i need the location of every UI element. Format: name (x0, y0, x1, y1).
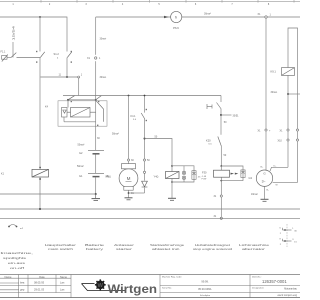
Wirtgen logo ribbon (82, 284, 127, 291)
wire bus 30 right segment (96, 16, 171, 18)
section description column 2 (45, 243, 76, 251)
section description column 4 (114, 243, 134, 251)
svg-text:gep: gep (20, 289, 25, 292)
border bottom line (0, 297, 300, 299)
wire start switch to node (220, 109, 222, 115)
svg-text:G2: G2 (79, 151, 83, 155)
svg-text:K20: K20 (206, 138, 211, 142)
node junction Y4 bottom (171, 181, 173, 183)
wire x67 below switch (66, 58, 68, 78)
solenoid valve coil Y4 (166, 166, 180, 179)
contact K4.1 in starter line (144, 96, 146, 139)
svg-text:Ident-No.:: Ident-No.: (252, 276, 262, 279)
wire hairpin top right (288, 28, 298, 129)
connector 31 pin upper (220, 195, 222, 197)
ground symbol Y4 (168, 198, 176, 200)
svg-text:G3: G3 (249, 176, 253, 180)
svg-text:50ma²: 50ma² (78, 143, 85, 146)
connector pin 1 on y77 (78, 76, 80, 78)
svg-text:F1.1: F1.1 (1, 51, 6, 54)
terminal marks K1 (39, 167, 41, 180)
terminal 30 starter (127, 159, 129, 161)
svg-text:battery: battery (86, 247, 104, 251)
section description column 6 (193, 243, 233, 251)
connector X1 at bus end (265, 16, 267, 18)
connector on x297 y130 (296, 129, 298, 131)
alternator G3 (256, 170, 272, 186)
starter brush box (124, 187, 133, 191)
svg-text:stop engine solenoid: stop engine solenoid (193, 247, 233, 251)
starter solenoid box (128, 161, 130, 164)
gauge P6.6 (171, 11, 182, 22)
svg-text:h: h (175, 15, 177, 20)
section description column 1 (1, 251, 34, 270)
rail 31 partial y194 (0, 193, 96, 195)
connector 31 pin lower on rail (220, 217, 222, 219)
svg-text:30ma¹: 30ma¹ (271, 91, 278, 94)
svg-text:08.05.93: 08.05.93 (34, 280, 45, 284)
svg-text:Wirtgen: Wirtgen (108, 283, 158, 296)
diode in relay box (62, 108, 68, 118)
svg-text:W: W (98, 283, 104, 289)
svg-text:30ma²: 30ma² (204, 12, 211, 15)
svg-text:abtastet ind.: abtastet ind. (152, 247, 180, 251)
svg-text:G1: G1 (79, 174, 83, 178)
node junction bus x40 (39, 16, 41, 18)
svg-text:bea: bea (20, 280, 25, 284)
svg-text:Motoranbau: Motoranbau (284, 287, 297, 290)
ground symbol starter (125, 198, 133, 200)
switch S1 pole c blade (67, 52, 72, 58)
svg-text:Schaltplan: Schaltplan (200, 294, 211, 297)
fuse F1.1 (2, 55, 8, 62)
svg-text:29.01.03: 29.01.03 (34, 288, 45, 292)
svg-text:Name: Name (5, 275, 12, 279)
svg-text:POW: POW (202, 178, 207, 180)
svg-text:50ma²: 50ma² (112, 133, 119, 136)
wire D+ to alternator (270, 167, 288, 171)
svg-text:Y4(): Y4() (154, 174, 159, 178)
wire rail corner to start switch (220, 96, 222, 103)
Wirtgen logo gear (95, 279, 106, 290)
relay contact K9.1 (282, 68, 295, 76)
svg-text:30/51: 30/51 (233, 115, 240, 118)
column ticks top (41, 0, 294, 3)
wire starter feed x128.5 (128, 96, 130, 159)
svg-text:K9.1: K9.1 (271, 70, 277, 74)
wire F30 suppressor loop (221, 166, 243, 181)
svg-text:126357-0001: 126357-0001 (262, 279, 287, 284)
svg-text:Serial No.:: Serial No.: (162, 287, 173, 290)
svg-text:50ma³: 50ma³ (77, 165, 84, 168)
relay box K4.1 outline (58, 101, 107, 126)
border top line (0, 0, 300, 2)
ground symbol battery (92, 194, 101, 201)
svg-text:main switch: main switch (48, 247, 74, 251)
ground symbol alternator (261, 199, 269, 201)
jumper symbol bottom left (9, 225, 17, 227)
wire K20 to F30 (220, 146, 222, 166)
battery G2 (88, 151, 104, 154)
svg-text:M: M (127, 176, 131, 181)
terminal circle diode top (143, 171, 145, 173)
connector X1 pin on x95.7 (95, 57, 97, 59)
rail 30a y95.5 (63, 95, 221, 97)
svg-text:B-: B- (267, 189, 269, 191)
svg-text:16ma²: 16ma² (251, 193, 258, 196)
relay coil K4.1 (67, 100, 90, 117)
node junction F30 top (220, 165, 222, 167)
wire F30 down (220, 177, 222, 217)
wire bus 30 left segment (0, 17, 67, 52)
wire starter to ground (128, 190, 130, 197)
wire x40 vertical main (39, 17, 41, 209)
suppressor diode F30 (241, 170, 245, 178)
relay contact inside box (90, 100, 104, 122)
wire x13 drop (12, 42, 14, 58)
diode V1 (142, 181, 148, 187)
terminal marks switch S1 (36, 51, 72, 63)
svg-text:S1.2: S1.2 (54, 52, 60, 56)
node junction battery ground (95, 193, 97, 195)
svg-text:lmaschine,: lmaschine, (1, 251, 34, 255)
node junction x288 y94 (288, 93, 300, 95)
wire x78 drop (78, 78, 80, 96)
connector X10 on x288 (287, 139, 289, 141)
terminal mark box exit (97, 125, 98, 126)
section description column 7 (239, 243, 270, 251)
connector pin row 2 (283, 239, 292, 241)
wire y57 run (7, 57, 40, 59)
start switch cluster (207, 103, 221, 110)
wire x288 below K9.1 (270, 75, 300, 171)
wire x266 down to alternator (265, 18, 267, 170)
svg-text:Lan: Lan (60, 288, 65, 292)
connector on x297 y140 (296, 139, 298, 141)
wire node link y99.8 (68, 99, 96, 101)
node junction Y4 top (171, 165, 173, 167)
wire box bottom run (64, 100, 96, 150)
wire Y4 suppressor loop (172, 166, 194, 182)
svg-text:starter: starter (116, 247, 132, 251)
suppressor diode Y4 (192, 171, 196, 180)
svg-text:Designation:: Designation: (252, 286, 265, 289)
svg-text:alternator: alternator (242, 247, 265, 251)
terminal 50 (143, 159, 145, 161)
node junction x40 rail (39, 208, 41, 210)
wire y138.5 to Y4 column (145, 139, 173, 167)
battery G1 (88, 174, 104, 177)
svg-text:15/54: 15/54 (12, 25, 16, 40)
svg-text:F30: F30 (202, 170, 207, 174)
wire alternator ground (264, 186, 266, 199)
contact blade left K4 (68, 96, 75, 100)
connector block detail dashed line (286, 224, 288, 247)
node junction 30/51 (220, 114, 222, 116)
wire x297 down to alternator W (273, 131, 298, 182)
svg-text:05.30.0460-: 05.30.0460- (198, 287, 212, 291)
node junction x95.7 (95, 99, 97, 101)
connector X1 on x288 (287, 129, 289, 131)
contact blade right K4 (96, 96, 102, 100)
node junction F30 bottom (220, 180, 222, 182)
connector X1 on x266 (265, 129, 267, 131)
wire x95.7 vertical from bus (95, 17, 97, 100)
node junction y138.5 (144, 138, 146, 140)
svg-text:ein-aus: ein-aus (8, 261, 26, 265)
wire battery to ground rail (95, 177, 97, 194)
title table texts (5, 275, 68, 292)
wire diode link (129, 139, 145, 194)
wire between batteries (95, 155, 97, 174)
rail 31a y218.3 (0, 217, 300, 219)
relay coil K1 (32, 169, 49, 177)
terminal marks on node link (71, 101, 100, 102)
switch S1 pole a blade (11, 53, 16, 58)
svg-text:30ma¹: 30ma¹ (100, 38, 107, 41)
rail 31 y209 (0, 208, 300, 210)
node junction x68 (67, 99, 69, 101)
connector pin row 1 (283, 228, 292, 230)
svg-text:M1(): M1() (106, 175, 111, 179)
svg-text:on-off: on-off (10, 266, 24, 270)
svg-text:K4.1: K4.1 (131, 115, 137, 118)
svg-text:P6.6: P6.6 (173, 26, 179, 30)
node junction starter bottom (128, 192, 130, 194)
svg-text:electr.compon.eng: electr.compon.eng (277, 294, 297, 297)
section description column 3 (85, 243, 105, 251)
title block frame lines (0, 275, 300, 298)
svg-text:99.99.: 99.99. (201, 280, 208, 284)
section description column 5 (150, 243, 185, 251)
wire down to K20 contact (220, 115, 222, 135)
wire y77 link (41, 76, 78, 78)
svg-text:X10: X10 (278, 139, 283, 142)
column number labels top (12, 3, 270, 6)
node junction rail x128.5 (128, 95, 130, 97)
svg-text:Date: Date (39, 275, 45, 279)
svg-text:3~: 3~ (262, 180, 266, 184)
arrow on bus before P6.6 (164, 16, 169, 19)
svg-text:Name: Name (60, 275, 67, 279)
svg-text:Machine Reg. Code:: Machine Reg. Code: (162, 277, 182, 279)
suppressor lamps Y4 (182, 166, 185, 182)
arrows in F30 loop (231, 173, 239, 175)
contact K20 (218, 137, 222, 147)
svg-text:spotlights: spotlights (3, 256, 27, 260)
svg-text:30ma¹: 30ma¹ (100, 76, 107, 79)
starter motor M1 (119, 169, 138, 188)
switch S1 pole b blade (40, 52, 45, 58)
svg-text:Lan: Lan (60, 280, 65, 284)
stop solenoid F30 (214, 166, 230, 177)
